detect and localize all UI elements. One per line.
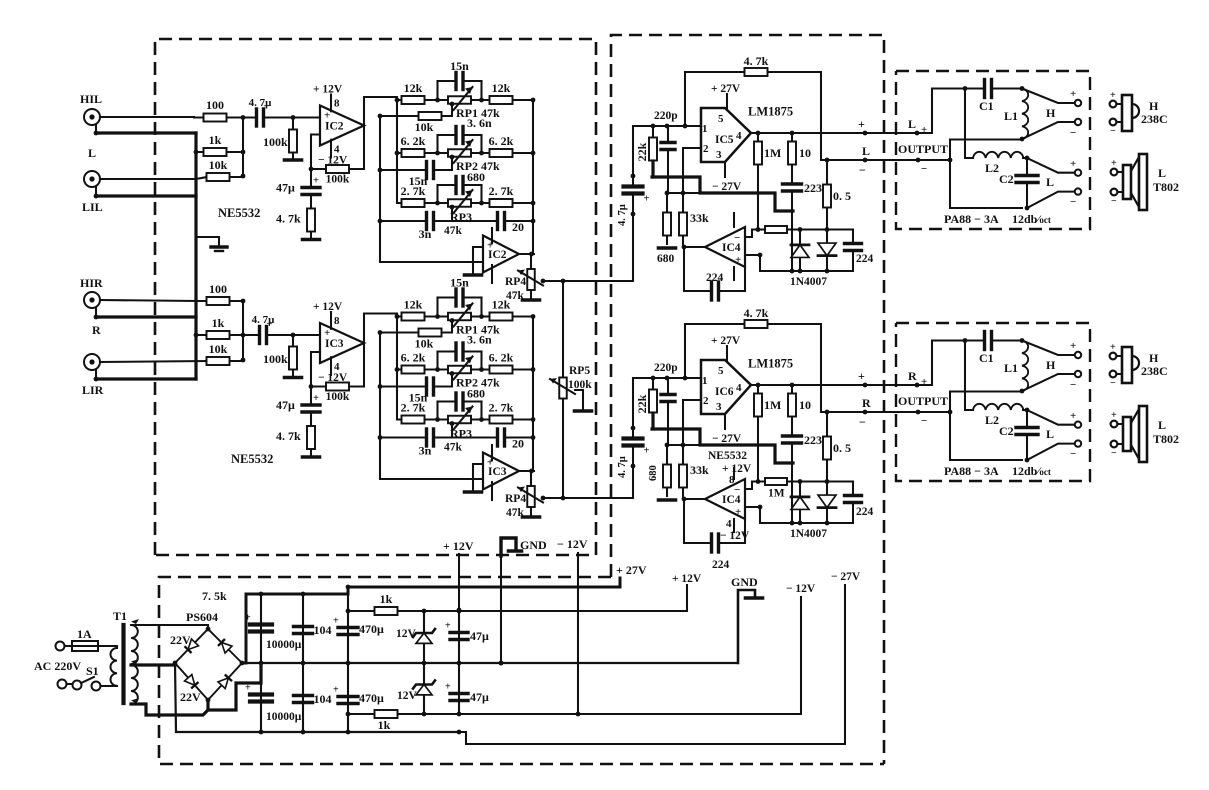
svg-text:+: + bbox=[1110, 90, 1116, 101]
resistor 100k feedback (IC2) bbox=[311, 165, 364, 186]
junction C2 top node (R) bbox=[1025, 408, 1030, 413]
terminal woofer - (L) bbox=[1070, 188, 1081, 208]
wire IC3 pin4 stub bbox=[330, 357, 332, 375]
wire bridge + to top rail bbox=[242, 578, 620, 663]
svg-text:4. 7k: 4. 7k bbox=[276, 429, 301, 443]
wire -12V rail bbox=[347, 597, 801, 714]
svg-text:NE5532: NE5532 bbox=[708, 450, 747, 462]
ground input bus bbox=[211, 247, 227, 251]
svg-text:−: − bbox=[1070, 127, 1076, 139]
capacitor 224 under IC4 (L) bbox=[684, 282, 745, 300]
junctions divider node (R) bbox=[241, 299, 246, 363]
svg-text:−: − bbox=[1110, 126, 1116, 137]
speaker type 238C (R) bbox=[1141, 364, 1168, 378]
wire bridge - to bottom rail bbox=[175, 663, 459, 732]
wire 224 cap right leg (R) bbox=[744, 519, 746, 543]
net OUTPUT (R) bbox=[898, 394, 948, 408]
potentiometer RP4 47k (L) bbox=[518, 266, 543, 293]
wire IC4 - input (L) bbox=[745, 230, 752, 238]
wire node to IC3 + input (R) bbox=[293, 334, 320, 336]
svg-text:L1: L1 bbox=[1004, 361, 1018, 375]
wire IC5 +27V pin stub bbox=[726, 94, 728, 108]
svg-text:GND: GND bbox=[731, 575, 758, 589]
designator C2 (R) bbox=[999, 424, 1014, 438]
svg-text:+ 27V: + 27V bbox=[711, 83, 741, 95]
junction tone -12V on -12V rail bbox=[576, 712, 581, 717]
capacitor 15n to RP2 wiper (R) bbox=[380, 378, 452, 405]
wire return dropper (R) bbox=[950, 412, 1022, 460]
wire IC2 top supply stub bbox=[491, 228, 493, 243]
resistor 100k to ground (L) bbox=[263, 118, 297, 159]
svg-text:680: 680 bbox=[648, 465, 659, 481]
svg-text:12k: 12k bbox=[492, 81, 511, 95]
wire -12V tone to PSU bbox=[577, 553, 579, 714]
ground 100k (R) bbox=[285, 376, 302, 380]
value 47k of RP3 (R) bbox=[444, 442, 463, 454]
svg-text:+: + bbox=[445, 682, 451, 693]
capacitor 680 bridge RP3 (L) bbox=[438, 170, 486, 194]
wire psu top rail segment bbox=[246, 593, 348, 595]
fuse rating 1A bbox=[77, 627, 92, 641]
junctions 470u column bbox=[346, 609, 351, 717]
svg-text:L: L bbox=[862, 144, 870, 158]
net L woofer (R) bbox=[1046, 427, 1054, 441]
svg-text:3n: 3n bbox=[419, 444, 432, 458]
svg-text:+: + bbox=[333, 685, 339, 696]
svg-text:1: 1 bbox=[702, 375, 708, 387]
resistor 10k (R) bbox=[380, 329, 448, 351]
wire LIL tip to 10k bbox=[100, 177, 207, 179]
wire IC2 pin8 stub bbox=[330, 95, 332, 112]
resistor 4.7k (IC2) bbox=[276, 203, 315, 238]
IC type LM1875 (L) bbox=[748, 105, 793, 119]
svg-text:−: − bbox=[734, 484, 740, 496]
speaker type 238C (L) bbox=[1141, 112, 1168, 126]
module name PA88-3A (R) bbox=[944, 464, 999, 478]
svg-text:47k: 47k bbox=[444, 225, 463, 237]
wire to tweeter + terminal (L) bbox=[1022, 89, 1074, 104]
svg-text:2: 2 bbox=[703, 395, 709, 407]
svg-text:+: + bbox=[1070, 410, 1076, 422]
wire IC6 -27V pin stub bbox=[724, 414, 726, 429]
terminal tweeter + (R) bbox=[1070, 340, 1081, 358]
wire secondary centre tap to bridge bbox=[131, 663, 175, 666]
value 100k of RP5 bbox=[568, 379, 592, 391]
junctions IC2 output node bbox=[529, 252, 534, 257]
svg-text:L: L bbox=[1046, 427, 1054, 441]
wire RP3 wiper tap (R) bbox=[451, 424, 453, 438]
svg-text:10k: 10k bbox=[415, 337, 434, 351]
wire 3.6n bridge right (L) bbox=[480, 135, 482, 153]
svg-text:PA88 − 3A: PA88 − 3A bbox=[944, 212, 999, 226]
svg-text:5: 5 bbox=[718, 365, 724, 377]
svg-text:−: − bbox=[921, 415, 927, 427]
wire to woofer - terminal (R) bbox=[1027, 444, 1074, 460]
svg-text:H: H bbox=[1046, 358, 1056, 372]
net -12V at IC4 (R) bbox=[720, 530, 750, 542]
resistor 33k (L) bbox=[679, 193, 709, 247]
svg-text:2. 7k: 2. 7k bbox=[401, 184, 426, 198]
wire IC6 +27V pin stub bbox=[726, 346, 728, 360]
capacitor 20 (R) bbox=[463, 429, 533, 451]
svg-text:12k: 12k bbox=[404, 298, 423, 312]
resistor 6.2k right (L) bbox=[482, 134, 534, 157]
value 47k of RP4 (L) bbox=[506, 290, 525, 302]
value 220p (L) bbox=[654, 110, 678, 122]
resistor clamp series (L) bbox=[752, 226, 800, 233]
thick shield bus HIL bbox=[96, 131, 196, 134]
value 680 (L) bbox=[657, 253, 675, 265]
svg-text:4. 7k: 4. 7k bbox=[744, 54, 769, 68]
svg-text:22V: 22V bbox=[170, 633, 191, 647]
capacitor 20 (L) bbox=[463, 213, 533, 235]
wire RP4 top (R) bbox=[530, 471, 532, 483]
junction 4.7u bottom (L) bbox=[631, 212, 636, 217]
svg-text:2: 2 bbox=[703, 143, 709, 155]
diode 1N4007 a (L) bbox=[791, 230, 809, 272]
junctions minus line (L) bbox=[825, 158, 868, 163]
value 224 clamp (L) bbox=[856, 253, 874, 265]
wire tone right bus (R) bbox=[532, 317, 534, 471]
pin 4 of IC2 bbox=[334, 144, 340, 156]
zener diode 12V lower bbox=[413, 663, 435, 714]
resistor 12k left (L) bbox=[397, 81, 438, 104]
junctions clamp link (R) bbox=[665, 443, 686, 448]
potentiometer RP2 47k (L) bbox=[438, 140, 500, 173]
wire 224 cap left leg (R) bbox=[683, 499, 685, 543]
junction L- entry bbox=[916, 158, 921, 163]
RCA jack LIL bbox=[82, 171, 103, 214]
svg-text:12k: 12k bbox=[404, 81, 423, 95]
power amplifier module dashed boundary bbox=[611, 35, 884, 764]
wire switch to primary bbox=[101, 685, 118, 687]
thick bus 22k bottom (R) bbox=[651, 413, 654, 429]
svg-text:−: − bbox=[1070, 196, 1076, 208]
resistor 2.7k left (R) bbox=[397, 401, 438, 424]
wire secondary top to bridge bbox=[131, 625, 208, 630]
ground 4.7k (IC3) bbox=[303, 455, 320, 459]
slope 12db/oct (R) bbox=[1012, 464, 1051, 478]
svg-text:3: 3 bbox=[716, 401, 722, 413]
svg-text:22k: 22k bbox=[635, 142, 649, 161]
svg-text:+: + bbox=[324, 327, 330, 339]
junction IC3 feedback node bbox=[309, 384, 314, 389]
junction R- entry bbox=[916, 410, 921, 415]
wire 680 bridge right (R) bbox=[480, 402, 482, 420]
value 220p (R) bbox=[654, 362, 678, 374]
capacitor 223 (R) bbox=[783, 433, 823, 463]
resistor 1k (R) bbox=[196, 316, 243, 339]
wire -27V feed bbox=[459, 585, 845, 744]
junction IC4 output (R) bbox=[682, 497, 687, 502]
capacitor 4.7u coupling (R) bbox=[243, 314, 293, 344]
thick -27V bus (R) bbox=[652, 429, 793, 463]
wire RP4 bottom (L) bbox=[530, 293, 532, 299]
zener diode 12V upper bbox=[413, 611, 435, 663]
wire to woofer + terminal (R) bbox=[1027, 410, 1074, 425]
svg-text:+: + bbox=[735, 254, 741, 266]
resistor 100 (R) bbox=[196, 282, 243, 305]
bridge rectifier PS604 bbox=[175, 610, 242, 700]
svg-text:4: 4 bbox=[736, 130, 742, 142]
net +12V (tone box) bbox=[443, 539, 474, 553]
potentiometer RP5 100k bbox=[550, 376, 575, 400]
junction C1 left node (R) bbox=[963, 338, 968, 343]
junction C1 left node (L) bbox=[963, 86, 968, 91]
capacitor 47u upper (psu) bbox=[445, 611, 489, 663]
fuse 1A bbox=[65, 641, 113, 651]
thick shield bus LIR bbox=[96, 377, 196, 380]
junctions tone right bus (R) bbox=[531, 314, 536, 440]
svg-text:+: + bbox=[644, 446, 650, 457]
capacitor 104 upper bbox=[294, 594, 332, 663]
junctions psu bottom rail bbox=[259, 730, 462, 735]
wire 3.6n bridge left (L) bbox=[436, 135, 438, 153]
junction RP3 wiper (R) bbox=[450, 421, 455, 426]
junctions tone inner bus (L) bbox=[378, 168, 383, 224]
wire 15n to RP2 wiper (R) bbox=[448, 374, 452, 387]
wire RP4-L wiper to power amp bbox=[543, 280, 633, 282]
net -27V (psu) bbox=[831, 571, 861, 583]
net H (R) bbox=[1046, 358, 1056, 372]
resistor 1M (L) bbox=[754, 133, 781, 230]
wire 223 to clamp row (R) bbox=[791, 463, 793, 523]
wire 10k to RP1 wiper (R) bbox=[442, 321, 452, 333]
svg-text:33k: 33k bbox=[690, 463, 709, 477]
resistor 2.7k left (L) bbox=[397, 184, 438, 207]
svg-text:+: + bbox=[324, 110, 330, 122]
resistor 12k left (R) bbox=[397, 298, 438, 321]
svg-text:1k: 1k bbox=[212, 316, 225, 330]
wire IC5 output line bbox=[751, 132, 896, 134]
svg-text:+: + bbox=[1111, 410, 1117, 421]
svg-text:C2: C2 bbox=[999, 424, 1014, 438]
capacitor 680 bridge RP3 (R) bbox=[438, 387, 486, 411]
junction RP2 wiper (R) bbox=[450, 371, 455, 376]
wire IC2 output to feedback bbox=[363, 126, 365, 169]
svg-text:47μ: 47μ bbox=[470, 629, 489, 643]
wire stage1 out to tone rows (L) bbox=[364, 97, 397, 126]
svg-text:8: 8 bbox=[729, 474, 735, 486]
svg-text:+: + bbox=[313, 176, 319, 187]
net + in crossover (L) bbox=[921, 124, 927, 136]
junctions bridge corners bbox=[173, 627, 245, 703]
wire return riser (R) bbox=[950, 392, 1022, 413]
net GND (psu) bbox=[731, 575, 758, 589]
svg-text:− 12V: − 12V bbox=[557, 537, 588, 551]
ground 680 (L) bbox=[659, 246, 676, 250]
svg-text:OUTPUT: OUTPUT bbox=[898, 394, 948, 408]
tone/preamp module dashed boundary bbox=[155, 39, 596, 555]
wire psu column 10000u bbox=[260, 594, 262, 732]
wire 680 bridge right (L) bbox=[480, 185, 482, 203]
svg-text:LIL: LIL bbox=[82, 200, 103, 214]
wire 224 cap left leg (L) bbox=[683, 247, 685, 291]
wire return riser (L) bbox=[950, 140, 1022, 161]
crossover PA88-3A dashed box (L) bbox=[896, 71, 1090, 229]
svg-text:15n: 15n bbox=[450, 59, 469, 73]
svg-text:T802: T802 bbox=[1153, 180, 1179, 194]
value 10000u lower bbox=[266, 711, 302, 723]
wire return dropper (L) bbox=[950, 160, 1022, 208]
wire IC4 top stub (L) bbox=[733, 213, 735, 227]
junction 4.7u bottom (R) bbox=[631, 464, 636, 469]
wire 680 bridge left (L) bbox=[436, 185, 438, 203]
value 680 (R) bbox=[648, 465, 659, 481]
svg-text:104: 104 bbox=[314, 623, 332, 637]
junctions tone left bus (R) bbox=[395, 314, 400, 372]
junctions output line (L) bbox=[756, 131, 868, 136]
junctions input line (L) bbox=[651, 124, 688, 129]
svg-text:1M: 1M bbox=[764, 398, 781, 412]
svg-text:+: + bbox=[313, 393, 319, 404]
svg-text:H: H bbox=[1046, 106, 1056, 120]
wire 33k column top (L) bbox=[682, 148, 684, 193]
junction RP3 wiper (L) bbox=[450, 205, 455, 210]
wire to tweeter - terminal (R) bbox=[1022, 374, 1074, 391]
pin 8 of IC4 (R) bbox=[729, 474, 735, 486]
resistor 10 (R) bbox=[788, 385, 811, 436]
net - output (L) bbox=[859, 163, 866, 177]
svg-text:HIR: HIR bbox=[80, 276, 103, 290]
svg-text:AC 220V: AC 220V bbox=[34, 659, 81, 673]
wire LIR sleeve stub bbox=[95, 370, 97, 379]
resistor 4.7k feedback (L) bbox=[685, 54, 821, 76]
svg-text:224: 224 bbox=[856, 506, 874, 518]
terminal tweeter + (L) bbox=[1070, 88, 1081, 106]
svg-text:4: 4 bbox=[736, 382, 742, 394]
svg-text:680: 680 bbox=[657, 253, 675, 265]
wire clamp link (R) bbox=[667, 444, 702, 446]
power op-amp IC5 LM1875 bbox=[701, 108, 751, 162]
junctions input line (R) bbox=[651, 376, 688, 381]
wire woofer feed (R) bbox=[965, 341, 973, 411]
net -12V (tone box) bbox=[557, 537, 588, 551]
capacitor 224 under IC4 (R) bbox=[684, 534, 745, 552]
wire 4.7u to volume wiper (L) bbox=[632, 214, 634, 281]
svg-text:8: 8 bbox=[334, 315, 340, 327]
net -27V at IC5 bbox=[712, 181, 742, 193]
net +12V at IC2 bbox=[313, 84, 343, 96]
junction IC4 + input (L) bbox=[758, 253, 763, 258]
svg-text:LM1875: LM1875 bbox=[748, 105, 793, 119]
capacitor C1 (L) bbox=[965, 80, 1022, 98]
channel label R bbox=[92, 323, 101, 337]
ground 680 (R) bbox=[659, 498, 676, 502]
svg-text:12db⁄oct: 12db⁄oct bbox=[1012, 212, 1051, 226]
value 1M clamp (R) bbox=[768, 488, 785, 500]
svg-text:GND: GND bbox=[520, 538, 547, 552]
wire L- into crossover bbox=[896, 159, 950, 161]
pin 8 of IC2 bbox=[334, 98, 340, 110]
svg-text:C1: C1 bbox=[979, 351, 994, 365]
junction IC4 output (L) bbox=[682, 245, 687, 250]
svg-text:238C: 238C bbox=[1141, 112, 1168, 126]
wire node to IC2 + input (L) bbox=[293, 116, 320, 118]
junction return node (R) bbox=[948, 410, 953, 415]
svg-text:+: + bbox=[1110, 342, 1116, 353]
wire tone left bus (R) bbox=[396, 317, 398, 420]
svg-text:−: − bbox=[859, 415, 866, 429]
wire 4.7k left leg (L) bbox=[684, 72, 686, 126]
value 12V lower zener bbox=[397, 690, 418, 702]
wire RP5 wiper to ground bbox=[575, 390, 583, 409]
wire woofer feed (L) bbox=[965, 89, 973, 159]
junctions RP3 ends (L) bbox=[435, 201, 484, 206]
svg-text:1k: 1k bbox=[378, 718, 391, 732]
svg-text:−: − bbox=[921, 163, 927, 175]
wire 4.7u column (R) bbox=[632, 378, 634, 428]
resistor clamp series (R) bbox=[752, 478, 800, 485]
speaker label H (R) bbox=[1149, 351, 1159, 365]
wire IC3 top supply stub bbox=[491, 445, 493, 460]
svg-text:−: − bbox=[1070, 379, 1076, 391]
op-amp IC4 (L) bbox=[705, 227, 745, 267]
svg-text:+: + bbox=[445, 621, 451, 632]
junctions clamp rows (L) bbox=[756, 227, 830, 273]
op-amp IC2 (input stage) bbox=[320, 106, 364, 146]
value 224 clamp (R) bbox=[856, 506, 874, 518]
net -12V (psu) bbox=[786, 583, 816, 595]
resistor 1k (L) bbox=[196, 133, 243, 156]
svg-text:47k: 47k bbox=[444, 442, 463, 454]
capacitor 10000u lower bbox=[245, 663, 272, 732]
wire IC3 inverting input bbox=[311, 352, 320, 387]
wire secondary bottom to bridge bbox=[131, 703, 208, 715]
thick shield bus HIR bbox=[96, 315, 196, 318]
svg-text:+ 12V: + 12V bbox=[313, 84, 343, 96]
svg-text:100k: 100k bbox=[326, 391, 350, 403]
IC label NE5532 (L) bbox=[218, 206, 260, 220]
svg-text:12V: 12V bbox=[397, 690, 418, 702]
svg-text:8: 8 bbox=[334, 98, 340, 110]
ground GND tone symbol bbox=[509, 549, 522, 553]
value 7.5k bbox=[202, 589, 227, 603]
svg-text:C2: C2 bbox=[999, 172, 1014, 186]
speaker tweeter H 238C (L) bbox=[1110, 90, 1139, 137]
RCA jack HIL bbox=[80, 92, 102, 125]
net -12V at IC3 bbox=[318, 372, 348, 384]
resistor 680 (L) bbox=[663, 193, 671, 244]
svg-text:10000μ: 10000μ bbox=[266, 639, 302, 651]
svg-text:IC5: IC5 bbox=[715, 134, 734, 146]
capacitor 15n to RP2 wiper (L) bbox=[380, 162, 452, 189]
op-amp IC2 summing stage bbox=[483, 236, 519, 273]
module name PA88-3A (L) bbox=[944, 212, 999, 226]
svg-text:+: + bbox=[1070, 88, 1076, 100]
junctions RP1 ends (R) bbox=[435, 314, 484, 319]
svg-text:− 27V: − 27V bbox=[712, 433, 742, 445]
wire divider node vertical (L) bbox=[242, 118, 244, 178]
svg-text:RP4: RP4 bbox=[505, 276, 526, 288]
capacitor 3n (L) bbox=[380, 213, 463, 242]
junctions RP3 ends (R) bbox=[435, 417, 484, 422]
junction L1 bottom node (L) bbox=[1020, 137, 1025, 142]
svg-text:10000μ: 10000μ bbox=[266, 711, 302, 723]
svg-text:104: 104 bbox=[314, 692, 332, 706]
resistor 1k lower bbox=[347, 710, 424, 732]
junctions RP4-R wiper line bbox=[541, 496, 566, 501]
capacitor 223 (L) bbox=[783, 181, 823, 211]
wire IC2 bottom supply stub bbox=[491, 265, 493, 283]
inductor L1 (L) bbox=[1004, 89, 1028, 139]
inductor L2 (L) bbox=[973, 152, 1023, 175]
wire IC2 inverting input bbox=[311, 135, 320, 170]
resistor 2.7k right (L) bbox=[482, 184, 534, 207]
wire IC4 top stub (R) bbox=[733, 468, 735, 479]
svg-text:1k: 1k bbox=[380, 592, 393, 606]
wire 15n bridge right (R) bbox=[480, 298, 482, 317]
